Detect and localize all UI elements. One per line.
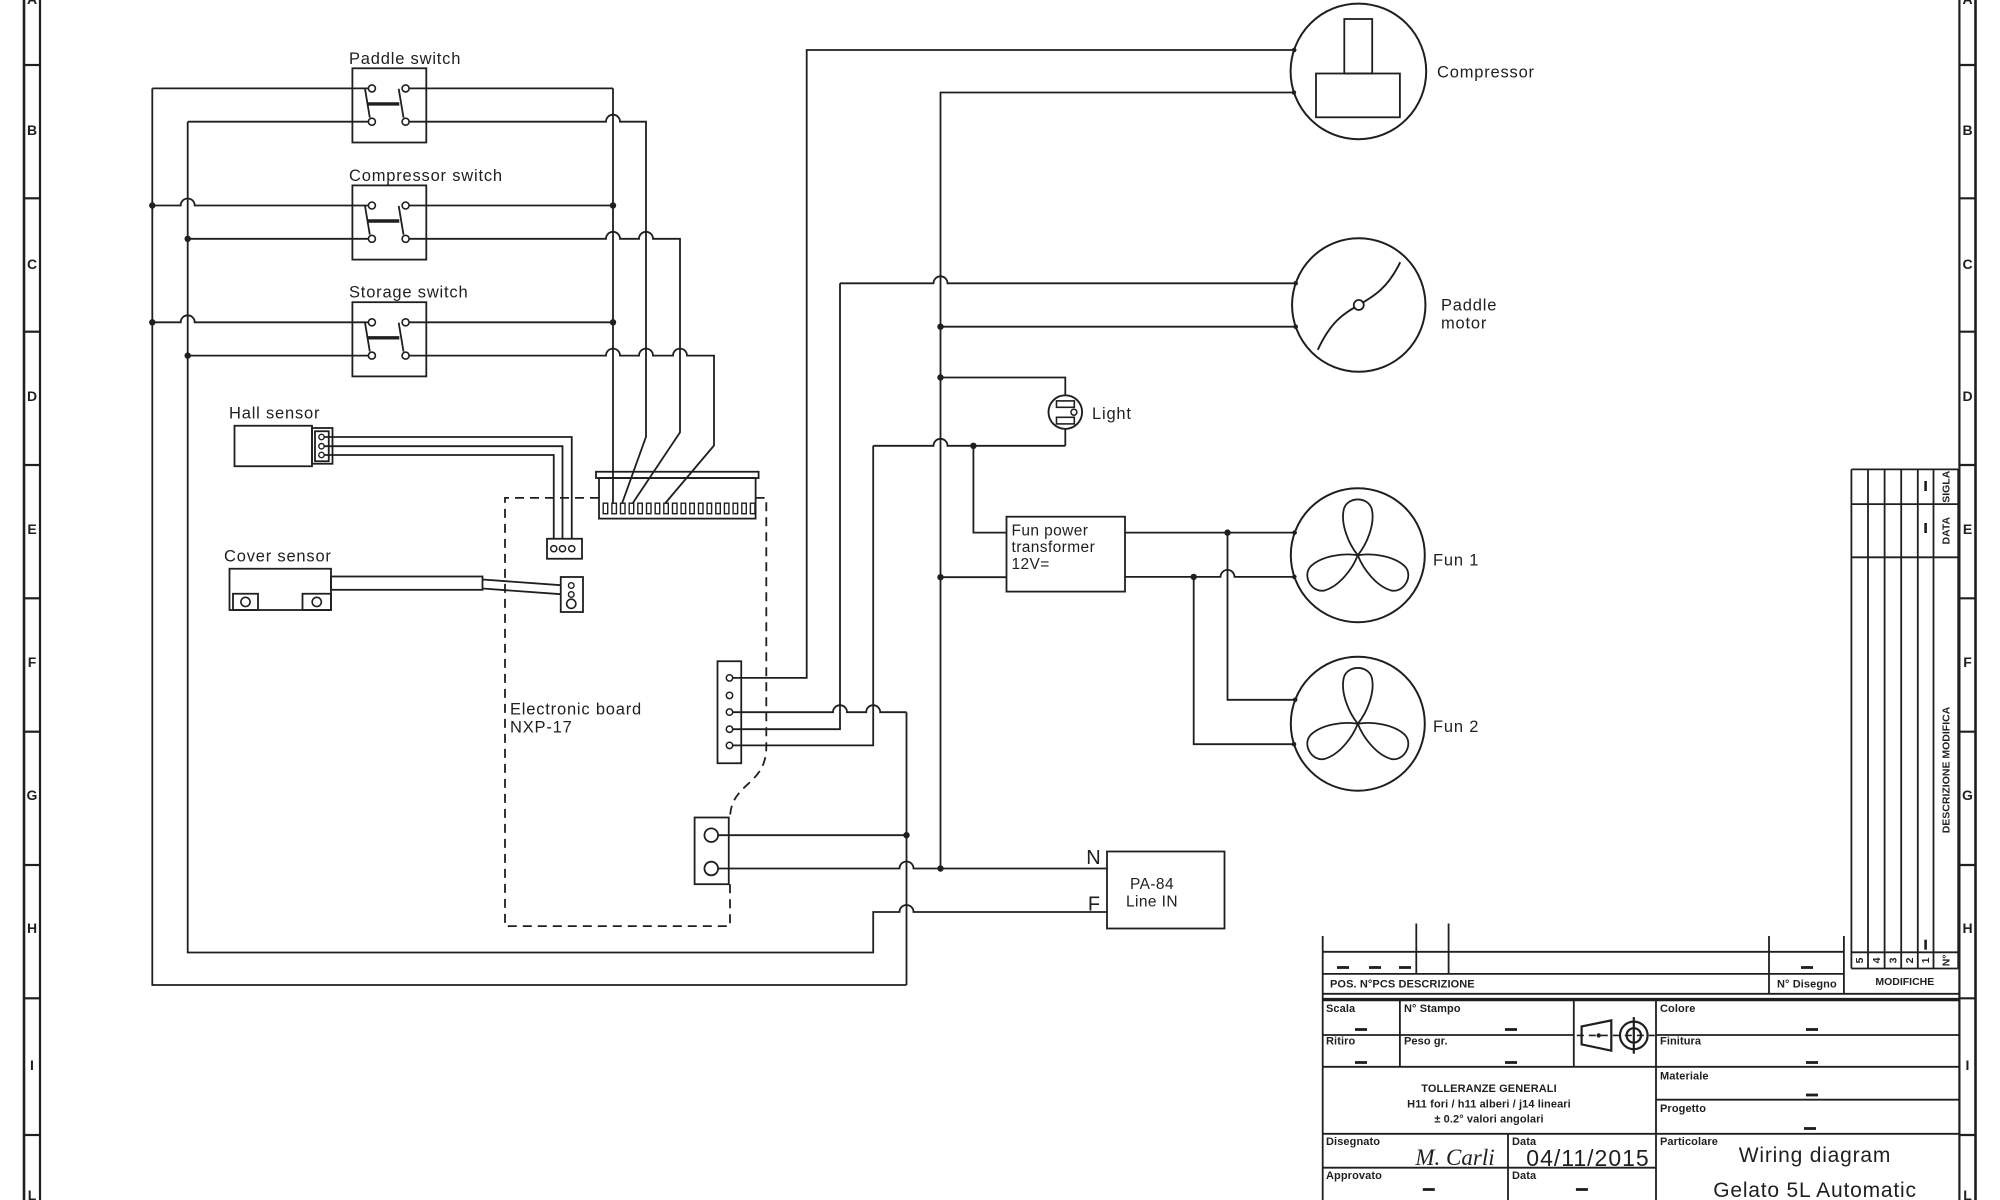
svg-text:Wiring diagram: Wiring diagram: [1739, 1144, 1891, 1167]
svg-text:B: B: [27, 122, 37, 138]
motor: Compressor: [1291, 4, 1535, 140]
svg-text:M. Carli: M. Carli: [1414, 1145, 1494, 1170]
svg-text:A: A: [1962, 0, 1972, 7]
revision table: [1851, 469, 1958, 968]
connector: cover sensor 3-pin header on board: [561, 577, 583, 612]
wire: transformer - to Fun1/Fun2: [1125, 570, 1294, 577]
svg-text:N°: N°: [1940, 955, 1952, 967]
svg-text:G: G: [1962, 787, 1973, 803]
svg-text:3: 3: [1887, 957, 1899, 963]
svg-text:Fun power: Fun power: [1012, 523, 1089, 540]
svg-text:transformer: transformer: [1012, 539, 1096, 556]
svg-text:5: 5: [1854, 957, 1866, 963]
svg-text:PA-84: PA-84: [1130, 876, 1174, 893]
svg-text:D: D: [27, 388, 37, 404]
svg-text:04/11/2015: 04/11/2015: [1526, 1145, 1649, 1171]
wire: pin5 to light riser: [733, 446, 873, 746]
svg-text:Cover sensor: Cover sensor: [224, 548, 332, 566]
node: junctions left buses: [149, 202, 155, 208]
svg-text:I: I: [30, 1057, 34, 1073]
svg-text:F: F: [1088, 894, 1100, 916]
wire: 2-pin terminal pin2 / N line to PA-84: [718, 862, 1107, 869]
svg-text:L: L: [28, 1187, 37, 1200]
svg-text:4: 4: [1871, 957, 1883, 963]
wire: cover sensor cable: [331, 577, 483, 590]
svg-text:Progetto: Progetto: [1660, 1103, 1706, 1115]
fan M1: [1291, 488, 1479, 622]
wire: switch-top bus drop to board connector: [612, 88, 614, 503]
wire: hall sensor to 3-pin connector: [324, 437, 572, 539]
svg-text:C: C: [1962, 256, 1972, 272]
lamp: Light: [1049, 395, 1132, 429]
svg-text:Paddle: Paddle: [1441, 297, 1497, 315]
svg-text:TOLLERANZE GENERALI: TOLLERANZE GENERALI: [1421, 1083, 1557, 1095]
fan M2: [1291, 657, 1479, 791]
wire: storage switch bottom row: [188, 355, 369, 357]
svg-text:MODIFICHE: MODIFICHE: [1875, 976, 1934, 988]
wire: compressor line 1 (pin1 riser): [733, 50, 1294, 678]
wire: paddle switch top row: [152, 87, 368, 89]
wire: compressor switch top row: [152, 199, 368, 206]
svg-text:Compressor: Compressor: [1437, 64, 1535, 82]
svg-text:Fun 1: Fun 1: [1433, 552, 1479, 570]
svg-text:SIGLA: SIGLA: [1940, 470, 1952, 503]
svg-text:2: 2: [1904, 957, 1916, 963]
wire: pin3 to lower bus riser: [733, 705, 907, 712]
wire: neutral to transformer input: [941, 576, 1007, 578]
connector: board 2-pin terminal: [695, 818, 729, 885]
svg-text:Gelato 5L Automatic: Gelato 5L Automatic: [1713, 1179, 1917, 1200]
svg-text:F: F: [1963, 654, 1972, 670]
svg-text:F: F: [28, 654, 37, 670]
wire: left outer bus (switch tops - line N side): [152, 88, 906, 985]
wire: left inner bus (switch bottoms to PA-84 F): [188, 122, 1107, 953]
terminal: PA-84 Line IN: [1086, 847, 1224, 929]
svg-text:DATA: DATA: [1940, 516, 1952, 544]
connector: hall sensor 3-pin header on board: [547, 539, 582, 559]
svg-text:L: L: [1963, 1187, 1972, 1200]
svg-text:N: N: [1086, 847, 1100, 869]
node: junctions middle risers: [937, 324, 943, 330]
svg-text:N° Stampo: N° Stampo: [1404, 1003, 1461, 1015]
svg-text:1: 1: [1920, 957, 1932, 963]
wire: transformer + to Fun1/Fun2: [1125, 532, 1295, 534]
wire: compressor switch bottom row: [188, 238, 369, 240]
wire: paddle motor bottom feed: [941, 326, 1296, 328]
svg-text:Finitura: Finitura: [1660, 1036, 1702, 1048]
svg-text:H11 fori / h11 alberi / j14 li: H11 fori / h11 alberi / j14 lineari: [1407, 1099, 1571, 1111]
svg-text:I: I: [1966, 1057, 1970, 1073]
svg-text:B: B: [1962, 122, 1972, 138]
svg-text:Hall sensor: Hall sensor: [229, 405, 320, 423]
svg-text:Materiale: Materiale: [1660, 1071, 1709, 1083]
svg-text:D: D: [1962, 388, 1972, 404]
svg-text:E: E: [1963, 521, 1972, 537]
svg-text:Light: Light: [1092, 405, 1132, 423]
svg-text:Colore: Colore: [1660, 1003, 1695, 1015]
svg-text:N° Disegno: N° Disegno: [1777, 979, 1837, 991]
connector: board 5-pin header: [718, 661, 742, 763]
svg-text:E: E: [27, 521, 36, 537]
svg-text:G: G: [27, 787, 38, 803]
sensor: Hall sensor: [229, 405, 333, 467]
switch S2: [349, 167, 503, 260]
svg-text:motor: motor: [1441, 315, 1487, 333]
svg-text:DESCRIZIONE MODIFICA: DESCRIZIONE MODIFICA: [1940, 706, 1952, 833]
wire: paddle motor top feed: [840, 276, 1296, 283]
wire: compressor line 2 riser x940: [941, 93, 1294, 869]
svg-text:H: H: [1962, 920, 1972, 936]
svg-text:Peso gr.: Peso gr.: [1404, 1036, 1448, 1048]
switch S1: [349, 50, 461, 143]
svg-text:Paddle switch: Paddle switch: [349, 50, 461, 68]
svg-text:Data: Data: [1512, 1170, 1537, 1182]
svg-text:Scala: Scala: [1326, 1003, 1356, 1015]
svg-text:POS. N°PCS DESCRIZIONE: POS. N°PCS DESCRIZIONE: [1330, 979, 1475, 991]
svg-text:Particolare: Particolare: [1660, 1136, 1718, 1148]
title block: [1323, 924, 1960, 1200]
svg-text:H: H: [27, 920, 37, 936]
wire: light bottom to pin5 riser: [1064, 429, 1066, 446]
svg-text:Storage switch: Storage switch: [349, 284, 468, 302]
wire: storage switch top row: [152, 315, 368, 322]
svg-text:12V=: 12V=: [1012, 556, 1050, 573]
wire: pin4 to paddle motor riser: [733, 283, 840, 729]
svg-text:A: A: [27, 0, 37, 7]
wire: paddle switch bottom row: [188, 121, 369, 123]
motor: Paddle motor: [1292, 238, 1497, 371]
svg-text:Approvato: Approvato: [1326, 1170, 1382, 1182]
svg-text:C: C: [27, 256, 37, 272]
wire: net riser x906 (tops bus / pin3 / 2-pin): [906, 712, 908, 985]
wire: 2-pin terminal pin1 to riser: [718, 834, 907, 836]
sensor: Cover sensor: [224, 548, 332, 611]
svg-text:Compressor switch: Compressor switch: [349, 167, 503, 185]
connector: board multi-pin comb connector: [596, 472, 759, 519]
svg-text:NXP-17: NXP-17: [510, 719, 573, 737]
board: Electronic board NXP-17 outline: [505, 498, 766, 926]
svg-text:Line IN: Line IN: [1126, 894, 1178, 911]
transformer: Fun power transformer 12V: [1007, 517, 1126, 592]
switch S3: [349, 284, 468, 377]
svg-text:Disegnato: Disegnato: [1326, 1136, 1380, 1148]
svg-text:Fun 2: Fun 2: [1433, 718, 1479, 736]
svg-text:Electronic board: Electronic board: [510, 701, 642, 719]
wire: light net to transformer input: [973, 446, 1006, 533]
node: fan feed junctions: [1224, 529, 1230, 535]
svg-text:Ritiro: Ritiro: [1326, 1036, 1356, 1048]
wire: light top feed: [941, 378, 1066, 396]
svg-text:± 0.2° valori angolari: ± 0.2° valori angolari: [1434, 1114, 1543, 1126]
